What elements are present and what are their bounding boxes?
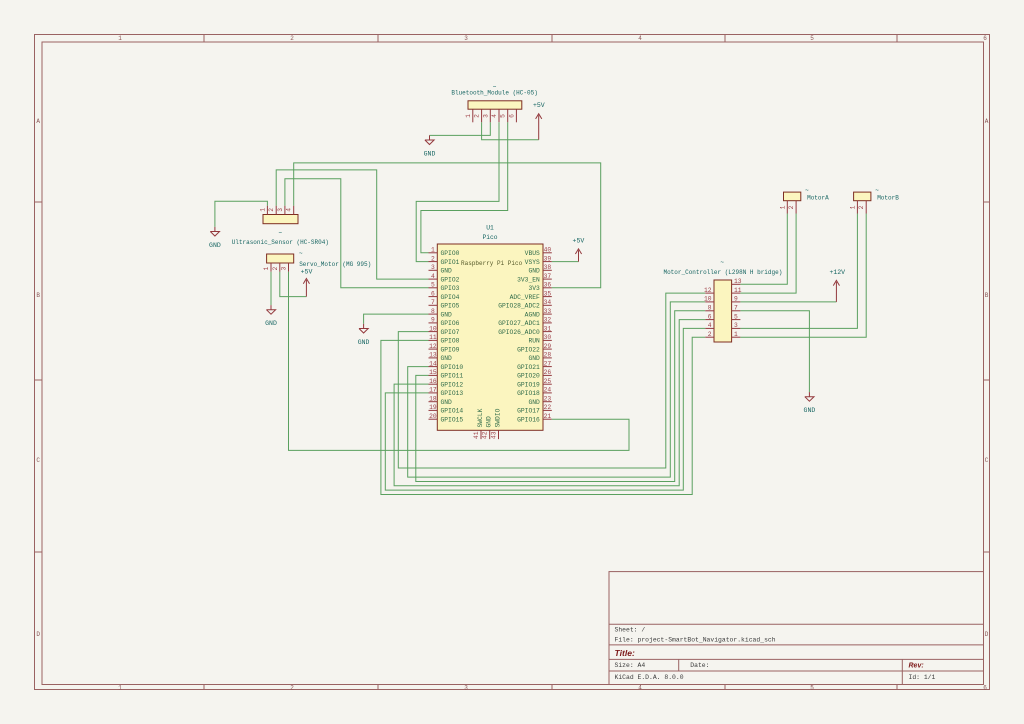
U1 pin 16 GPIO12 (429, 378, 464, 389)
U1 pin 9 GPIO6 (429, 317, 460, 328)
svg-text:+5V: +5V (301, 269, 313, 276)
svg-text:24: 24 (544, 387, 552, 394)
svg-text:28: 28 (544, 352, 552, 359)
svg-text:2: 2 (788, 205, 795, 209)
svg-text:6: 6 (508, 114, 515, 118)
Ultrasonic pin 4 (286, 206, 294, 215)
Bluetooth pin 1 (465, 109, 473, 122)
wire (280, 272, 307, 297)
power flag +5V (301, 269, 313, 297)
wire (270, 272, 272, 305)
svg-text:21: 21 (544, 413, 552, 420)
svg-text:File: project-SmartBot_Navigat: File: project-SmartBot_Navigator.kicad_s… (615, 637, 776, 644)
U1 pin 40 VBUS (525, 247, 552, 258)
MotorA pin 1 (779, 201, 787, 214)
U1 pin 11 GPIO8 (429, 334, 460, 345)
wire (416, 122, 499, 261)
svg-text:27: 27 (544, 360, 552, 367)
power flag +5V (573, 238, 585, 262)
svg-text:6: 6 (431, 290, 435, 297)
svg-text:1: 1 (779, 205, 786, 209)
U1 pin 26 GPIO20 (517, 369, 552, 380)
svg-text:Title:: Title: (615, 648, 636, 658)
Ultrasonic pin 3 (277, 206, 285, 215)
svg-text:SWDIO: SWDIO (494, 408, 501, 427)
svg-text:GPIO5: GPIO5 (441, 303, 460, 310)
svg-text:2: 2 (290, 684, 294, 691)
ground (209, 227, 221, 249)
wire (408, 302, 706, 477)
Motor_Controller pin 7 (732, 305, 741, 312)
connector Ultrasonic_Sensor body (263, 215, 298, 224)
wire (394, 320, 705, 486)
svg-text:GPIO10: GPIO10 (441, 364, 464, 371)
svg-text:7: 7 (431, 299, 435, 306)
connector MotorA body (784, 192, 801, 201)
svg-text:14: 14 (429, 360, 437, 367)
svg-text:6: 6 (983, 684, 987, 691)
svg-text:~: ~ (875, 187, 879, 194)
svg-text:16: 16 (429, 378, 437, 385)
svg-text:GPIO21: GPIO21 (517, 364, 540, 371)
Bluetooth pin 5 (500, 109, 508, 122)
svg-text:6: 6 (708, 313, 712, 320)
U1 pin 27 GPIO21 (517, 360, 552, 371)
U1 pin 23 GND (528, 395, 551, 406)
ground (804, 392, 816, 414)
svg-text:2: 2 (268, 208, 275, 212)
U1 pin 1 GPIO0 (429, 247, 460, 258)
connector Motor_Controller body (714, 280, 732, 342)
svg-text:GPIO11: GPIO11 (441, 373, 464, 380)
svg-text:GPIO22: GPIO22 (517, 346, 540, 353)
Bluetooth pin 3 (482, 109, 490, 122)
svg-text:1: 1 (465, 114, 472, 118)
svg-text:33: 33 (544, 308, 552, 315)
wire (421, 122, 508, 253)
svg-text:1: 1 (118, 35, 122, 42)
U1 pin 21 GPIO16 (517, 413, 552, 424)
svg-text:GND: GND (424, 150, 436, 157)
svg-text:3: 3 (464, 684, 468, 691)
connector Servo_Motor body (267, 254, 294, 263)
svg-text:2: 2 (858, 205, 865, 209)
svg-text:C: C (36, 457, 40, 464)
wire (482, 122, 539, 139)
svg-text:34: 34 (544, 299, 552, 306)
U1 pin 24 GPIO18 (517, 387, 552, 398)
svg-text:10: 10 (429, 325, 437, 332)
svg-text:Motor_Controller (L298N H brid: Motor_Controller (L298N H bridge) (663, 269, 782, 276)
svg-text:23: 23 (544, 395, 552, 402)
svg-text:GND: GND (528, 399, 540, 406)
svg-text:GPIO20: GPIO20 (517, 373, 540, 380)
U1 pin 29 GPIO22 (517, 343, 552, 354)
svg-text:1: 1 (259, 208, 266, 212)
svg-text:GND: GND (486, 416, 493, 428)
svg-text:5: 5 (810, 684, 814, 691)
svg-text:GND: GND (441, 399, 453, 406)
wire (740, 214, 796, 294)
Motor_Controller pin 3 (732, 322, 741, 329)
svg-text:GPIO26_ADC0: GPIO26_ADC0 (498, 329, 540, 336)
svg-text:GPIO4: GPIO4 (441, 294, 460, 301)
svg-text:11: 11 (429, 334, 437, 341)
svg-text:5: 5 (810, 35, 814, 42)
svg-text:9: 9 (431, 317, 435, 324)
U1 pin 3 GND (429, 264, 453, 275)
sheet column ticks (203, 35, 205, 43)
wire (416, 311, 705, 482)
svg-text:Date:: Date: (690, 662, 709, 669)
svg-text:30: 30 (544, 334, 552, 341)
svg-text:5: 5 (431, 282, 435, 289)
svg-text:26: 26 (544, 369, 552, 376)
wire (430, 122, 491, 135)
svg-text:2: 2 (474, 114, 481, 118)
MotorA pin 2 (788, 201, 796, 214)
svg-text:GPIO12: GPIO12 (441, 381, 464, 388)
wire (364, 314, 429, 324)
svg-text:VSYS: VSYS (525, 259, 540, 266)
svg-text:40: 40 (544, 247, 552, 254)
Motor_Controller pin 6 (705, 313, 714, 320)
Motor_Controller pin 2 (705, 331, 714, 338)
U1 pin 42 GND (482, 416, 493, 439)
wire (294, 163, 601, 288)
U1 pin 2 GPIO1 (429, 255, 460, 266)
wire (740, 214, 857, 329)
svg-text:GPIO16: GPIO16 (517, 416, 540, 423)
U1 pin 7 GPIO5 (429, 299, 460, 310)
Motor_Controller pin 5 (732, 313, 741, 320)
svg-text:4: 4 (638, 684, 642, 691)
Motor_Controller pin 11 (732, 287, 742, 294)
svg-text:2: 2 (431, 255, 435, 262)
svg-text:3: 3 (277, 208, 284, 212)
Servo pin 3 (281, 263, 289, 272)
U1 pin 4 GPIO2 (429, 273, 460, 284)
svg-text:Id: 1/1: Id: 1/1 (909, 674, 936, 681)
svg-text:GPIO18: GPIO18 (517, 390, 540, 397)
power flag +12V (829, 269, 845, 302)
power flag +5V (533, 102, 545, 140)
svg-text:GPIO3: GPIO3 (441, 285, 460, 292)
svg-text:36: 36 (544, 282, 552, 289)
U1 pin 13 GND (429, 352, 453, 363)
U1 pin 20 GPIO15 (429, 413, 464, 424)
svg-text:GND: GND (441, 268, 453, 275)
Ultrasonic pin 1 (259, 206, 267, 215)
svg-text:B: B (36, 292, 40, 299)
U1 pin 19 GPIO14 (429, 404, 464, 415)
svg-text:3: 3 (464, 35, 468, 42)
svg-text:GND: GND (441, 355, 453, 362)
svg-text:5: 5 (500, 114, 507, 118)
svg-text:3: 3 (281, 266, 288, 270)
svg-text:~: ~ (805, 187, 809, 194)
U1 pin 17 GPIO13 (429, 387, 464, 398)
connector Bluetooth_Module body (468, 101, 522, 109)
U1 pin 43 SWDIO (490, 408, 501, 439)
svg-text:GPIO14: GPIO14 (441, 408, 464, 415)
U1 pin 25 GPIO19 (517, 378, 552, 389)
svg-text:15: 15 (429, 369, 437, 376)
svg-text:1: 1 (849, 205, 856, 209)
svg-text:8: 8 (708, 305, 712, 312)
wire (385, 328, 705, 490)
svg-text:43: 43 (490, 431, 497, 439)
svg-text:+5V: +5V (533, 102, 545, 109)
svg-text:1: 1 (118, 684, 122, 691)
svg-text:GPIO17: GPIO17 (517, 408, 540, 415)
ground (424, 135, 436, 157)
svg-text:GPIO2: GPIO2 (441, 276, 460, 283)
U1 pin 18 GND (429, 395, 453, 406)
U1 pin 30 RUN (528, 334, 551, 345)
wire (285, 179, 429, 288)
svg-text:25: 25 (544, 378, 552, 385)
Motor_Controller pin 12 (704, 287, 714, 294)
U1 pin 32 GPIO27_ADC1 (498, 317, 552, 328)
svg-text:42: 42 (482, 431, 489, 439)
svg-text:Servo_Motor (MG 995): Servo_Motor (MG 995) (299, 261, 371, 268)
svg-text:GPIO15: GPIO15 (441, 416, 464, 423)
svg-text:39: 39 (544, 255, 552, 262)
MotorB pin 1 (849, 201, 857, 214)
svg-text:GPIO6: GPIO6 (441, 320, 460, 327)
svg-text:GPIO1: GPIO1 (441, 259, 460, 266)
svg-text:GPIO28_ADC2: GPIO28_ADC2 (498, 303, 540, 310)
svg-text:ADC_VREF: ADC_VREF (510, 294, 540, 301)
U1 pin 39 VSYS (525, 255, 552, 266)
svg-text:2: 2 (272, 266, 279, 270)
Motor_Controller pin 13 (732, 278, 742, 285)
wire (215, 201, 268, 227)
svg-text:VBUS: VBUS (525, 250, 540, 257)
Servo pin 1 (263, 263, 271, 272)
svg-text:GPIO0: GPIO0 (441, 250, 460, 257)
Motor_Controller pin 9 (732, 296, 741, 303)
svg-text:13: 13 (429, 352, 437, 359)
svg-text:1: 1 (431, 247, 435, 254)
U1 pin 38 GND (528, 264, 551, 275)
U1 pin 31 GPIO26_ADC0 (498, 325, 552, 336)
MotorB pin 2 (858, 201, 866, 214)
svg-text:20: 20 (429, 413, 437, 420)
svg-text:GND: GND (804, 407, 816, 414)
U1 pin 37 3V3_EN (517, 273, 552, 284)
svg-text:32: 32 (544, 317, 552, 324)
svg-text:A: A (36, 118, 40, 125)
svg-text:31: 31 (544, 325, 552, 332)
svg-text:35: 35 (544, 290, 552, 297)
svg-text:1: 1 (734, 331, 738, 338)
U1 pin 8 GND (429, 308, 453, 319)
svg-text:3: 3 (482, 114, 489, 118)
svg-text:MotorB: MotorB (877, 195, 899, 202)
svg-text:Size: A4: Size: A4 (615, 662, 646, 669)
svg-text:Rev:: Rev: (909, 662, 924, 669)
svg-text:Pico: Pico (482, 234, 497, 241)
svg-text:8: 8 (431, 308, 435, 315)
svg-text:GND: GND (528, 355, 540, 362)
Motor_Controller pin 10 (704, 296, 714, 303)
svg-text:GPIO19: GPIO19 (517, 381, 540, 388)
svg-text:1: 1 (263, 266, 270, 270)
U1 pin 36 3V3 (528, 282, 551, 293)
svg-text:19: 19 (429, 404, 437, 411)
wire (740, 214, 787, 285)
svg-text:41: 41 (473, 431, 480, 439)
svg-text:~: ~ (720, 259, 724, 266)
Motor_Controller pin 1 (732, 331, 741, 338)
title block frame (609, 572, 984, 685)
svg-text:U1: U1 (486, 225, 494, 232)
U1 pin 5 GPIO3 (429, 282, 460, 293)
svg-text:3: 3 (431, 264, 435, 271)
ground (358, 324, 370, 346)
svg-text:GPIO9: GPIO9 (441, 346, 460, 353)
wire (381, 337, 705, 494)
svg-text:4: 4 (286, 208, 293, 212)
svg-text:Raspberry Pi Pico: Raspberry Pi Pico (461, 260, 523, 267)
svg-text:GND: GND (209, 242, 221, 249)
svg-text:3: 3 (734, 322, 738, 329)
svg-text:38: 38 (544, 264, 552, 271)
wire (740, 311, 809, 392)
svg-text:3V3: 3V3 (528, 285, 540, 292)
U1 pin 41 SWCLK (473, 408, 484, 439)
svg-text:~: ~ (299, 250, 303, 257)
svg-text:A: A (985, 118, 989, 125)
sheet row ticks (35, 201, 43, 203)
U1 pin 14 GPIO10 (429, 360, 464, 371)
Motor_Controller pin 8 (705, 305, 714, 312)
svg-text:5: 5 (734, 313, 738, 320)
svg-text:KiCad E.D.A. 8.0.0: KiCad E.D.A. 8.0.0 (615, 674, 684, 681)
svg-text:GND: GND (441, 311, 453, 318)
svg-text:SWCLK: SWCLK (477, 408, 484, 427)
svg-text:GPIO13: GPIO13 (441, 390, 464, 397)
svg-text:D: D (36, 631, 40, 638)
svg-text:17: 17 (429, 387, 437, 394)
svg-text:2: 2 (290, 35, 294, 42)
Motor_Controller pin 4 (705, 322, 714, 329)
svg-text:3V3_EN: 3V3_EN (517, 276, 540, 283)
wire (740, 301, 836, 303)
svg-text:29: 29 (544, 343, 552, 350)
svg-text:GND: GND (358, 339, 370, 346)
svg-text:4: 4 (638, 35, 642, 42)
svg-text:Sheet: /: Sheet: / (615, 627, 646, 634)
svg-text:4: 4 (491, 114, 498, 118)
wire (276, 170, 428, 279)
svg-text:GPIO7: GPIO7 (441, 329, 460, 336)
svg-text:GPIO27_ADC1: GPIO27_ADC1 (498, 320, 540, 327)
Bluetooth pin 2 (474, 109, 482, 122)
IC U1 Raspberry Pi Pico body (437, 244, 543, 430)
svg-text:+12V: +12V (829, 269, 845, 276)
svg-text:GPIO8: GPIO8 (441, 338, 460, 345)
svg-text:18: 18 (429, 395, 437, 402)
svg-text:37: 37 (544, 273, 552, 280)
wire (398, 293, 705, 468)
svg-text:B: B (985, 292, 989, 299)
svg-text:Bluetooth_Module (HC-05): Bluetooth_Module (HC-05) (451, 89, 537, 96)
U1 pin 34 GPIO28_ADC2 (498, 299, 552, 310)
svg-text:9: 9 (734, 296, 738, 303)
Bluetooth pin 4 (491, 109, 499, 122)
wire (552, 261, 579, 263)
svg-text:Ultrasonic_Sensor (HC-SR04): Ultrasonic_Sensor (HC-SR04) (232, 239, 329, 246)
svg-text:D: D (985, 631, 989, 638)
U1 pin 15 GPIO11 (429, 369, 464, 380)
U1 pin 35 ADC_VREF (510, 290, 552, 301)
U1 pin 6 GPIO4 (429, 290, 460, 301)
svg-text:6: 6 (983, 35, 987, 42)
svg-text:C: C (985, 457, 989, 464)
U1 pin 33 AGND (525, 308, 552, 319)
U1 pin 28 GND (528, 352, 551, 363)
svg-text:+5V: +5V (573, 238, 585, 245)
svg-text:~: ~ (278, 230, 282, 237)
svg-text:4: 4 (708, 322, 712, 329)
U1 pin 12 GPIO9 (429, 343, 460, 354)
svg-text:RUN: RUN (528, 338, 540, 345)
wire (740, 214, 866, 338)
Servo pin 2 (272, 263, 280, 272)
connector MotorB body (854, 192, 871, 201)
svg-text:7: 7 (734, 305, 738, 312)
svg-text:4: 4 (431, 273, 435, 280)
svg-text:22: 22 (544, 404, 552, 411)
ground (265, 305, 277, 327)
svg-text:GND: GND (265, 320, 277, 327)
svg-text:GND: GND (528, 268, 540, 275)
Ultrasonic pin 2 (268, 206, 276, 215)
wire (289, 272, 630, 451)
svg-text:12: 12 (429, 343, 437, 350)
svg-text:2: 2 (708, 331, 712, 338)
Bluetooth pin 6 (508, 109, 516, 122)
U1 pin 10 GPIO7 (429, 325, 460, 336)
svg-text:MotorA: MotorA (807, 195, 829, 202)
svg-text:AGND: AGND (525, 311, 540, 318)
U1 pin 22 GPIO17 (517, 404, 552, 415)
